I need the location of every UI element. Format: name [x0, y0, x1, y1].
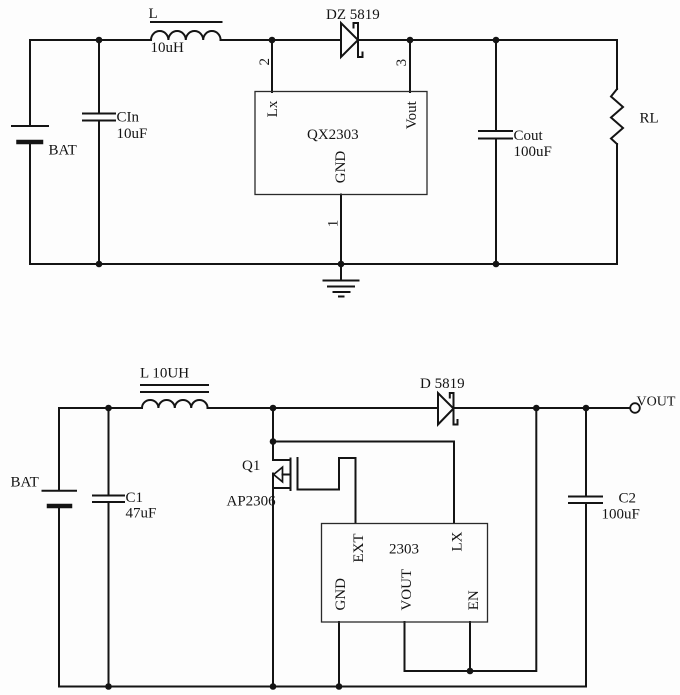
svg-text:100uF: 100uF	[514, 144, 552, 160]
svg-text:GND: GND	[333, 578, 349, 611]
svg-text:2: 2	[257, 58, 273, 65]
svg-text:EXT: EXT	[351, 533, 367, 562]
svg-text:RL: RL	[640, 111, 659, 127]
svg-text:Cout: Cout	[514, 128, 544, 144]
svg-text:1: 1	[326, 220, 342, 228]
svg-text:C1: C1	[126, 490, 144, 506]
svg-text:D 5819: D 5819	[420, 376, 465, 392]
svg-text:L 10UH: L 10UH	[140, 366, 189, 382]
svg-text:BAT: BAT	[11, 475, 39, 491]
svg-text:BAT: BAT	[49, 143, 77, 159]
svg-text:Lx: Lx	[265, 100, 281, 117]
svg-text:VOUT: VOUT	[399, 569, 415, 611]
svg-text:100uF: 100uF	[602, 507, 640, 523]
svg-text:10uF: 10uF	[117, 126, 148, 142]
svg-text:47uF: 47uF	[126, 506, 157, 522]
svg-text:Vout: Vout	[404, 100, 420, 129]
svg-text:VOUT: VOUT	[637, 395, 676, 410]
svg-text:3: 3	[394, 59, 410, 67]
svg-text:L: L	[149, 6, 158, 22]
svg-text:10uH: 10uH	[151, 40, 185, 56]
svg-text:GND: GND	[333, 151, 349, 184]
svg-text:Q1: Q1	[242, 458, 260, 474]
svg-text:C2: C2	[619, 491, 637, 507]
svg-text:AP2306: AP2306	[227, 494, 277, 510]
svg-text:DZ 5819: DZ 5819	[326, 7, 380, 23]
svg-text:EN: EN	[466, 590, 482, 610]
svg-text:LX: LX	[450, 531, 466, 551]
svg-text:CIn: CIn	[117, 110, 140, 126]
svg-text:QX2303: QX2303	[307, 127, 359, 143]
svg-text:2303: 2303	[389, 542, 419, 558]
